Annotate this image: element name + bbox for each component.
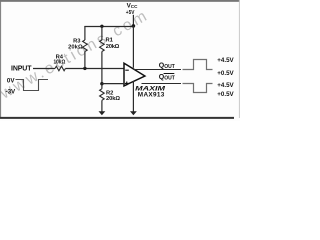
svg-text:R1: R1 (106, 38, 114, 44)
op-amp U1 comparator triangle (124, 63, 145, 86)
border frame right (238, 0, 240, 118)
plus input sign (125, 82, 129, 86)
overline on QOUT-bar (164, 73, 175, 75)
border frame left (0, 0, 2, 118)
svg-text:+0.5V: +0.5V (217, 70, 234, 77)
wire R3 to node A (84, 52, 86, 69)
svg-text:-3V: -3V (6, 88, 17, 95)
wire R1 down to plus node (crossover at input wire) (101, 52, 103, 85)
resistor R1 (100, 40, 105, 52)
wire R2 top (101, 84, 103, 89)
svg-text:+4.5V: +4.5V (217, 82, 234, 89)
wire plus node to comparator (102, 83, 124, 85)
output waveform Q (183, 60, 213, 70)
resistor R4 (55, 66, 65, 71)
wire VCC to comparator (132, 26, 134, 68)
junction dot R1 top (100, 25, 103, 28)
svg-text:QOUT: QOUT (159, 63, 175, 71)
wire R2 to ground (101, 100, 103, 111)
svg-text:20kΩ: 20kΩ (106, 44, 120, 50)
wire QOUT-bar (142, 83, 182, 85)
wire VCC tap (132, 15, 134, 26)
output waveform Q-bar (183, 84, 213, 93)
svg-text:+4.5V: +4.5V (217, 57, 234, 64)
svg-text:20kΩ: 20kΩ (106, 96, 120, 102)
wire QOUT (134, 69, 181, 71)
wire rail to R1 (101, 26, 103, 40)
top rail wire (84, 26, 134, 28)
svg-text:QOUT: QOUT (159, 74, 175, 82)
wire comparator ground pin (132, 81, 134, 112)
wire input to R4 (33, 68, 55, 70)
node A junction dot (83, 67, 86, 70)
junction dot VCC (132, 24, 136, 28)
svg-text:+0.5V: +0.5V (217, 91, 234, 98)
svg-text:MAX913: MAX913 (138, 91, 165, 98)
border frame top (0, 0, 240, 2)
resistor R2 (100, 89, 105, 101)
svg-text:0V: 0V (7, 77, 15, 84)
svg-text:10kΩ: 10kΩ (54, 59, 66, 65)
input waveform (16, 80, 49, 91)
minus input sign (125, 69, 129, 71)
svg-text:20kΩ: 20kΩ (68, 44, 83, 50)
resistor R3 (83, 40, 88, 52)
border frame bottom (0, 117, 234, 119)
svg-text:INPUT: INPUT (11, 65, 32, 72)
wire R4 to comparator minus input (65, 68, 124, 70)
ground symbol right (130, 111, 137, 115)
junction dot plus node (100, 82, 103, 85)
svg-text:www.ections.com: www.ections.com (0, 7, 152, 103)
ground symbol left (99, 111, 106, 115)
wire rail to R3 (84, 26, 86, 40)
svg-text:VCC: VCC (127, 2, 139, 9)
